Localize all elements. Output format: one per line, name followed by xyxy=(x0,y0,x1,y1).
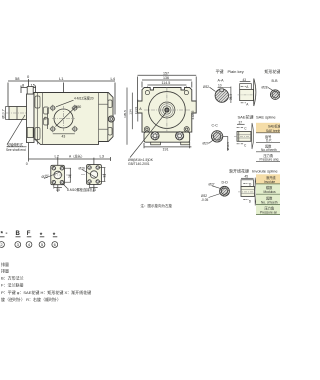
svg-text:L1: L1 xyxy=(59,76,64,81)
wire dim bottom xyxy=(53,184,55,189)
rear cover line xyxy=(107,93,109,142)
svg-text:Ø27: Ø27 xyxy=(203,142,209,146)
transistor involute side view xyxy=(238,175,257,204)
svg-text:-0.05: -0.05 xyxy=(201,198,208,202)
svg-text:157: 157 xyxy=(163,71,169,75)
svg-text:矩形花键: 矩形花键 xyxy=(265,68,281,74)
svg-text:No. of teeth: No. of teeth xyxy=(261,200,278,204)
shaft xyxy=(6,107,42,120)
svg-text:渐开线花键: 渐开线花键 xyxy=(229,167,249,173)
svg-text:Ø20: Ø20 xyxy=(79,167,85,171)
svg-text:L3: L3 xyxy=(100,154,105,159)
SAE table xyxy=(256,123,282,162)
transistor spline D section xyxy=(201,186,229,202)
svg-text:114.5: 114.5 xyxy=(162,81,171,85)
rear boss xyxy=(108,116,114,122)
bolt holes 4-M12 xyxy=(51,106,77,131)
svg-text:SAE spline: SAE spline xyxy=(256,114,276,119)
svg-text:32: 32 xyxy=(103,174,107,178)
svg-text:0: 0 xyxy=(26,162,28,166)
svg-text:58: 58 xyxy=(15,76,20,81)
node label see shaft end xyxy=(6,115,27,152)
svg-text:Ø27: Ø27 xyxy=(209,182,215,186)
svg-text:14: 14 xyxy=(56,188,60,192)
svg-text:见轴伸形式: 见轴伸形式 xyxy=(7,142,24,147)
feet bosses xyxy=(151,132,159,140)
svg-text:P：平键 φ：SAE花键 H：矩形花键 X：渐开线花键: P：平键 φ：SAE花键 H：矩形花键 X：渐开线花键 xyxy=(1,289,91,295)
wire dim 191 xyxy=(144,143,191,148)
svg-text:Pressure an: Pressure an xyxy=(260,211,277,215)
big circle xyxy=(149,92,186,129)
corner holes xyxy=(144,91,189,132)
svg-text:195.5: 195.5 xyxy=(123,110,127,118)
svg-text:Ø10.7: Ø10.7 xyxy=(2,109,6,118)
svg-text:4-M12深度20: 4-M12深度20 xyxy=(74,95,94,100)
wire dim line small xyxy=(21,87,36,89)
svg-text:B-B: B-B xyxy=(272,79,279,83)
svg-text:Ø19.5: Ø19.5 xyxy=(226,142,230,151)
svg-text:43: 43 xyxy=(243,78,247,82)
svg-text:SAE花键: SAE花键 xyxy=(238,113,254,119)
flange arc 3 xyxy=(255,178,257,206)
svg-text:A-A: A-A xyxy=(218,79,225,83)
svg-text:D-D: D-D xyxy=(222,180,229,184)
wire flange centerlines xyxy=(45,174,72,176)
involute table xyxy=(256,174,280,214)
svg-text:10: 10 xyxy=(218,83,222,87)
svg-text:F：法兰联接: F：法兰联接 xyxy=(1,282,23,288)
svg-text:Ø22: Ø22 xyxy=(42,175,48,179)
svg-text:平键 Plain key: 平键 Plain key xyxy=(216,68,244,74)
svg-text:L4: L4 xyxy=(111,76,116,81)
svg-text:B: B xyxy=(16,231,21,237)
mounting flange xyxy=(27,94,35,143)
svg-text:旋（逆时针） R：右旋（顺时针）: 旋（逆时针） R：右旋（顺时针） xyxy=(1,296,61,302)
wire bottom dim L2 A L3 xyxy=(29,143,111,192)
svg-text:See shaft end: See shaft end xyxy=(6,148,26,152)
svg-text:Pressure ang: Pressure ang xyxy=(260,158,279,162)
wire dim 32 xyxy=(104,168,106,182)
svg-text:Ø50: Ø50 xyxy=(75,105,81,109)
svg-text:4-Ø15: 4-Ø15 xyxy=(191,110,195,119)
svg-text:136: 136 xyxy=(163,76,169,80)
flange arc 1 xyxy=(254,79,256,107)
transistor key side view xyxy=(238,78,257,107)
base block xyxy=(144,132,190,142)
transistor keyway section xyxy=(203,83,233,103)
svg-text:Ø28: Ø28 xyxy=(262,86,268,90)
port circle xyxy=(54,109,73,128)
wire dim 43 xyxy=(53,133,75,135)
wire top dims xyxy=(138,75,197,101)
svg-text:SAE teeth: SAE teeth xyxy=(266,129,280,133)
transistor SAE side view xyxy=(234,121,254,148)
svg-text:134: 134 xyxy=(129,109,133,114)
svg-text:No.of teeth: No.of teeth xyxy=(261,148,277,152)
wire dim 36 xyxy=(69,168,71,182)
node shaft dia dim xyxy=(6,107,10,120)
node label thread xyxy=(130,113,166,158)
svg-text:A（总长）: A（总长） xyxy=(69,154,84,159)
wire dim 78 xyxy=(47,108,49,129)
svg-text:37: 37 xyxy=(239,121,243,125)
svg-text:Ø32: Ø32 xyxy=(203,85,209,89)
svg-text:Involute: Involute xyxy=(264,180,275,184)
svg-text:L2: L2 xyxy=(55,154,60,159)
wire left dims xyxy=(127,88,138,145)
svg-text:注：图示旋向为左旋: 注：图示旋向为左旋 xyxy=(141,203,173,208)
svg-text:35.3: 35.3 xyxy=(229,94,233,100)
svg-text:D.P.: D.P. xyxy=(266,139,272,143)
svg-text:191: 191 xyxy=(163,148,169,152)
svg-text:排量: 排量 xyxy=(1,267,9,273)
svg-text:Modulus: Modulus xyxy=(264,190,276,194)
body front xyxy=(138,88,197,133)
svg-text:Involute spline: Involute spline xyxy=(252,168,278,173)
svg-text:-: - xyxy=(6,231,8,237)
svg-text:C-C: C-C xyxy=(212,124,219,128)
svg-text:43: 43 xyxy=(62,134,66,138)
transistor spline B section xyxy=(270,90,280,100)
svg-text:排量: 排量 xyxy=(1,261,9,267)
transistor spline C section xyxy=(203,131,231,151)
pump body xyxy=(34,93,113,145)
node legend text xyxy=(1,261,91,302)
wire dim line top xyxy=(8,80,115,82)
svg-text:B：方形法兰: B：方形法兰 xyxy=(1,275,24,281)
svg-text:11: 11 xyxy=(93,188,97,192)
svg-text:45: 45 xyxy=(245,175,249,179)
flange arc 2 xyxy=(252,123,254,149)
svg-text:GB/T140-2001: GB/T140-2001 xyxy=(128,162,150,166)
svg-text:F: F xyxy=(27,231,31,237)
wire body inner lines xyxy=(35,93,112,145)
svg-text:78: 78 xyxy=(44,117,48,121)
